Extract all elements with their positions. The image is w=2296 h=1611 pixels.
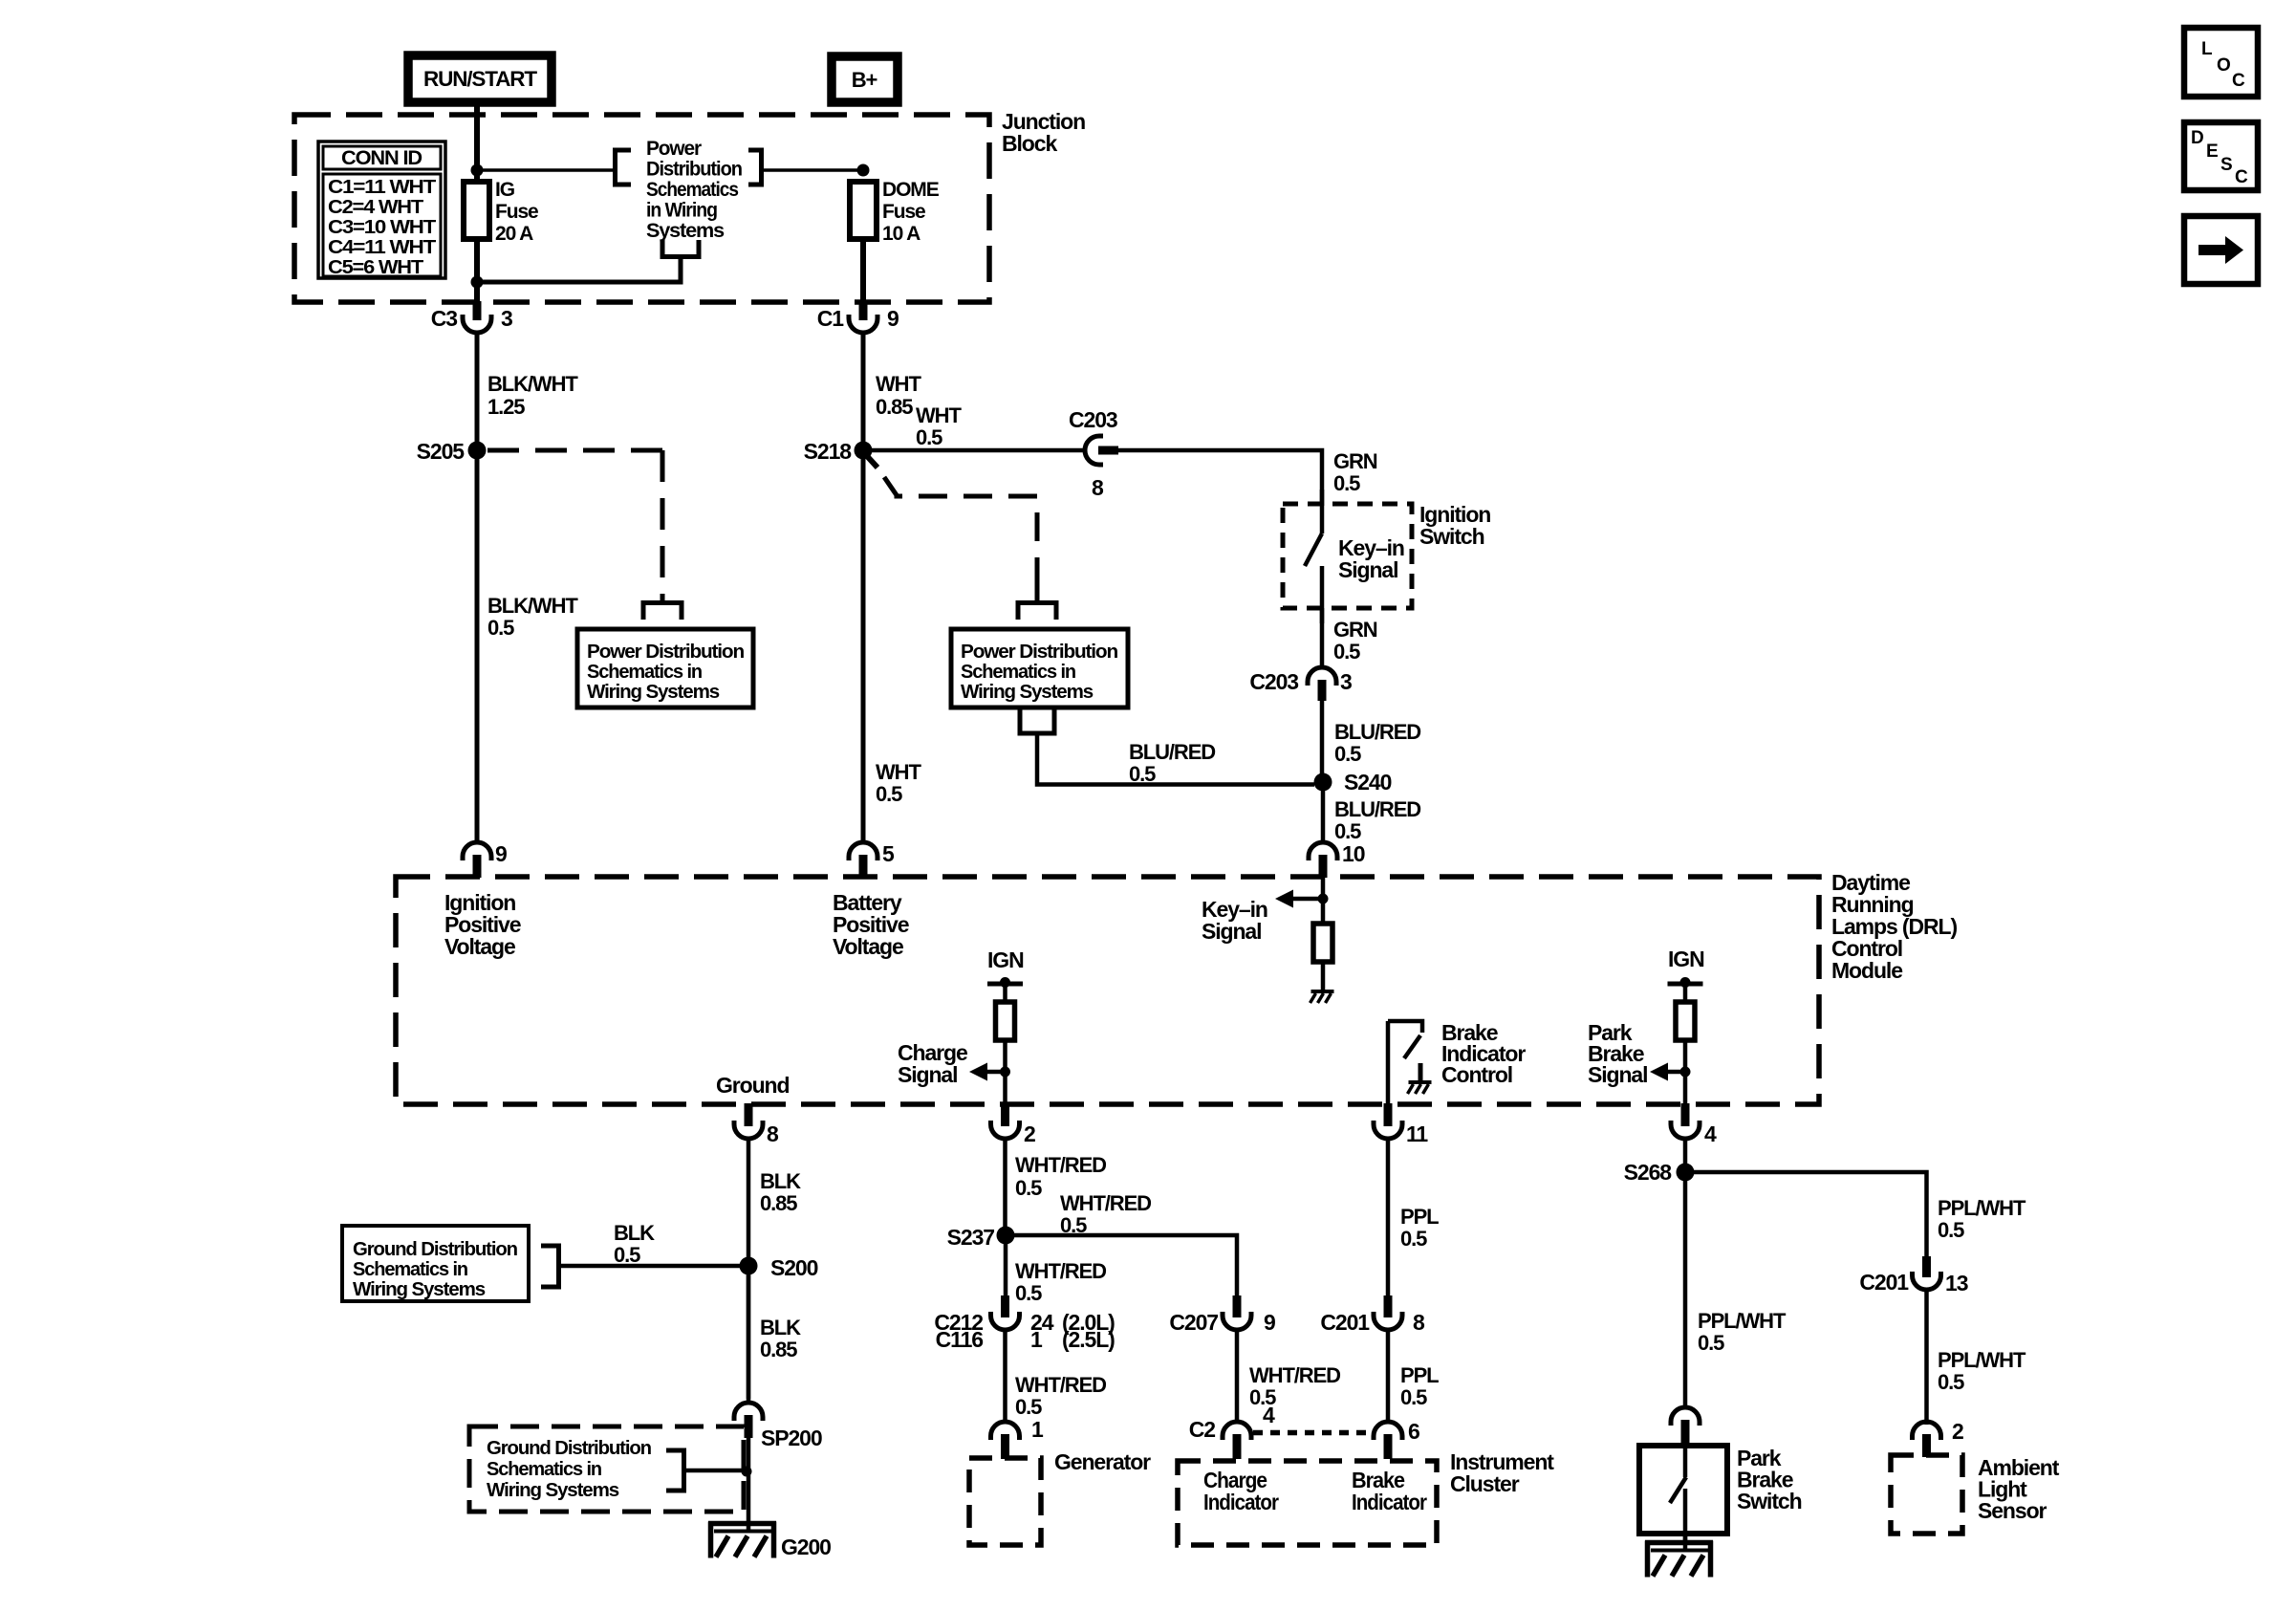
svg-text:BLK/WHT: BLK/WHT <box>487 594 578 618</box>
svg-text:0.5: 0.5 <box>916 425 942 449</box>
svg-text:0.5: 0.5 <box>1938 1370 1964 1394</box>
wire resistor to charge node <box>1003 1040 1007 1104</box>
node junction lower left <box>471 276 484 289</box>
svg-text:BLK: BLK <box>760 1316 801 1339</box>
svg-text:0.5: 0.5 <box>876 782 902 806</box>
connector ID table CONN ID <box>318 142 445 278</box>
node junction at IG fuse top <box>471 164 484 177</box>
svg-text:13: 13 <box>1945 1271 1968 1295</box>
wire reference to G200 lead <box>683 1469 745 1473</box>
svg-text:11: 11 <box>1406 1121 1428 1146</box>
wire S218 to DRL connector 5 WHT 0.5 <box>861 459 866 843</box>
svg-text:S240: S240 <box>1344 770 1392 795</box>
key-in signal arrow <box>1318 894 1329 904</box>
svg-text:S218: S218 <box>804 439 853 464</box>
junction block box <box>294 115 989 302</box>
svg-text:Generator: Generator <box>1054 1449 1151 1474</box>
park brake switch contacts <box>1683 1446 1688 1477</box>
svg-text:L: L <box>2201 39 2213 59</box>
svg-text:5: 5 <box>882 841 895 866</box>
svg-text:C: C <box>2235 167 2248 187</box>
park brake signal arrow <box>1680 1067 1691 1078</box>
splice S240 <box>1314 773 1332 792</box>
svg-text:8: 8 <box>1413 1310 1425 1335</box>
connector C2 charge indicator pin 4 <box>1223 1422 1251 1440</box>
svg-text:(2.5L): (2.5L) <box>1062 1327 1115 1352</box>
svg-text:4: 4 <box>1704 1121 1717 1146</box>
wire S200 to SP200 BLK 0.85 <box>747 1274 751 1404</box>
svg-text:9: 9 <box>887 306 899 331</box>
svg-text:Schematics in: Schematics in <box>353 1259 467 1280</box>
DRL control module box <box>396 877 1819 1104</box>
svg-text:CONN ID: CONN ID <box>341 147 422 169</box>
svg-text:0.85: 0.85 <box>760 1191 797 1215</box>
wire C207 to C2 WHT/RED 0.5 <box>1235 1330 1240 1424</box>
wire RUN/START down to IG fuse <box>474 102 480 182</box>
connector park brake switch <box>1671 1407 1700 1426</box>
svg-text:Voltage: Voltage <box>833 934 903 959</box>
svg-text:C5=6 WHT: C5=6 WHT <box>328 257 423 278</box>
schematic reference bracket (SP200) <box>666 1450 684 1491</box>
svg-text:Schematics in: Schematics in <box>587 662 702 683</box>
svg-text:10: 10 <box>1342 841 1365 866</box>
svg-text:Switch: Switch <box>1737 1489 1802 1513</box>
svg-text:0.5: 0.5 <box>1333 471 1360 495</box>
svg-text:IGN: IGN <box>987 947 1024 972</box>
power feed RUN/START <box>408 55 552 102</box>
svg-text:C3=10 WHT: C3=10 WHT <box>328 217 436 238</box>
svg-text:C4=11 WHT: C4=11 WHT <box>328 237 436 258</box>
wire S237 to C212 WHT/RED 0.5 <box>1004 1244 1008 1297</box>
ground brake indicator (chassis) <box>1419 1063 1423 1081</box>
svg-text:S: S <box>2220 155 2232 175</box>
svg-text:Cluster: Cluster <box>1450 1471 1520 1496</box>
connector C201 pin 8 <box>1384 1295 1393 1317</box>
svg-text:0.5: 0.5 <box>1400 1385 1427 1409</box>
svg-text:0.5: 0.5 <box>1938 1218 1964 1242</box>
node junction at DOME fuse top <box>857 164 870 177</box>
wire C201 to connector 6 PPL 0.5 <box>1386 1330 1391 1424</box>
svg-text:IGN: IGN <box>1668 947 1704 971</box>
ambient light sensor box <box>1891 1455 1962 1534</box>
wire park brake switch to ground <box>1683 1534 1688 1549</box>
svg-text:Wiring Systems: Wiring Systems <box>587 682 720 703</box>
connector 5 into DRL module <box>849 842 877 860</box>
svg-text:WHT: WHT <box>876 372 921 396</box>
svg-text:1: 1 <box>1030 1327 1043 1352</box>
svg-text:Schematics in: Schematics in <box>961 662 1075 683</box>
svg-text:Fuse: Fuse <box>495 201 538 223</box>
wire S240 to DRL connector 10 BLU/RED 0.5 <box>1321 791 1326 843</box>
connector 8 ground out of DRL <box>745 1103 753 1126</box>
wire resistor to park node <box>1683 1040 1688 1104</box>
svg-text:0.5: 0.5 <box>1400 1227 1427 1251</box>
svg-text:0.5: 0.5 <box>1060 1213 1087 1237</box>
schematic reference bracket (right) <box>748 150 762 185</box>
svg-text:C2=4 WHT: C2=4 WHT <box>328 197 423 218</box>
splice S237 <box>997 1227 1015 1245</box>
ground distribution reference box (dashed) <box>469 1426 744 1512</box>
svg-text:0.5: 0.5 <box>1015 1281 1042 1305</box>
svg-text:C201: C201 <box>1859 1270 1909 1295</box>
svg-text:D: D <box>2191 128 2203 148</box>
brake indicator control switch <box>1386 1021 1391 1104</box>
svg-text:S200: S200 <box>770 1255 818 1280</box>
schematic reference under-bracket to S240 <box>1018 708 1057 733</box>
svg-text:C3: C3 <box>431 306 458 331</box>
connector 2 ambient light sensor <box>1913 1422 1941 1440</box>
svg-text:Systems: Systems <box>646 220 724 242</box>
schematic reference under-bracket (junction block) <box>661 240 702 257</box>
svg-text:Wiring Systems: Wiring Systems <box>961 682 1094 703</box>
svg-text:0.5: 0.5 <box>614 1243 640 1267</box>
connector 4 park out of DRL <box>1681 1103 1690 1126</box>
wire C201-13 to ambient sensor PPL/WHT 0.5 <box>1924 1290 1929 1425</box>
connector SP200 splice pack <box>734 1403 763 1421</box>
wire lower reference return <box>477 258 681 282</box>
svg-text:0.85: 0.85 <box>876 395 913 419</box>
svg-text:IG: IG <box>495 179 515 201</box>
svg-text:C203: C203 <box>1069 407 1117 432</box>
svg-text:Control: Control <box>1441 1062 1512 1087</box>
svg-text:Module: Module <box>1831 958 1902 983</box>
connector 9 into DRL module <box>463 842 491 860</box>
connector 10 into DRL module <box>1309 842 1337 860</box>
svg-text:Schematics: Schematics <box>646 179 738 201</box>
connector 6 brake indicator <box>1374 1422 1402 1440</box>
svg-text:BLU/RED: BLU/RED <box>1129 740 1215 764</box>
svg-text:S268: S268 <box>1624 1160 1673 1185</box>
svg-text:3: 3 <box>1340 669 1352 694</box>
svg-text:PPL/WHT: PPL/WHT <box>1938 1348 2026 1372</box>
power distribution schematics box (left) <box>577 629 753 708</box>
svg-text:Schematics in: Schematics in <box>487 1459 601 1480</box>
wire SP200 to G200 <box>747 1438 751 1530</box>
key-in switch contacts <box>1320 490 1325 533</box>
wire ignition switch to C203-3 GRN 0.5 <box>1320 608 1325 669</box>
splice S218 <box>855 442 873 460</box>
connector C201 pin 13 <box>1922 1256 1931 1277</box>
ground distribution schematics box <box>342 1226 529 1301</box>
svg-text:Signal: Signal <box>1338 557 1397 582</box>
svg-text:GRN: GRN <box>1333 449 1377 473</box>
wire C203 to ignition switch GRN 0.5 <box>1118 450 1322 506</box>
svg-text:GRN: GRN <box>1333 618 1377 642</box>
connector C207 pin 9 <box>1233 1295 1242 1317</box>
svg-text:BLU/RED: BLU/RED <box>1334 720 1420 744</box>
splice S200 <box>740 1257 758 1275</box>
svg-text:Power Distribution: Power Distribution <box>961 642 1117 663</box>
splice S268 <box>1677 1164 1695 1182</box>
wire connector 10 to key-in node <box>1321 878 1326 924</box>
svg-text:BLK/WHT: BLK/WHT <box>487 372 578 396</box>
svg-text:Power: Power <box>646 138 702 160</box>
wire IG fuse to connector C3 <box>474 239 480 303</box>
svg-text:Signal: Signal <box>1202 919 1261 944</box>
ignition switch box <box>1283 504 1412 608</box>
svg-text:O: O <box>2217 55 2230 76</box>
svg-text:Power Distribution: Power Distribution <box>587 642 744 663</box>
schematic reference bracket over box (left) <box>643 603 682 620</box>
svg-text:Signal: Signal <box>1588 1062 1647 1087</box>
wire reference to splice S240 BLU/RED 0.5 <box>1037 733 1314 785</box>
svg-text:Fuse: Fuse <box>882 201 925 223</box>
wire DOME fuse to connector C1 <box>860 239 866 303</box>
svg-text:3: 3 <box>501 306 512 331</box>
wire C3 to splice S205 BLK/WHT 1.25 <box>475 332 480 443</box>
svg-text:B+: B+ <box>852 68 877 92</box>
svg-text:1.25: 1.25 <box>487 395 525 419</box>
connector C203 pin 3 <box>1308 667 1336 686</box>
wire connector 2 to splice S237 WHT/RED 0.5 <box>1003 1139 1007 1227</box>
wire S205 to DRL connector 9 BLK/WHT 0.5 <box>475 459 480 843</box>
svg-text:C203: C203 <box>1249 669 1298 694</box>
dotted wire charge to brake indicator <box>1253 1430 1373 1436</box>
svg-text:Indicator: Indicator <box>1203 1490 1279 1514</box>
node junction on G200 lead <box>742 1467 752 1477</box>
svg-text:1: 1 <box>1031 1417 1044 1442</box>
svg-text:C1=11 WHT: C1=11 WHT <box>328 177 436 198</box>
svg-text:DOME: DOME <box>882 179 940 201</box>
wire C203-3 to splice S240 BLU/RED 0.5 <box>1320 699 1325 774</box>
connector C203 pin 8 <box>1085 436 1103 465</box>
svg-text:2: 2 <box>1024 1121 1035 1146</box>
connector C1 pin 9 <box>859 301 868 320</box>
splice S205 <box>468 442 487 460</box>
connector 2 charge out of DRL <box>1001 1103 1009 1126</box>
svg-text:C201: C201 <box>1320 1310 1370 1335</box>
svg-text:0.85: 0.85 <box>760 1338 797 1361</box>
wire S218 to C203 WHT 0.5 <box>872 448 1086 453</box>
wire connector 8 to splice S200 BLK 0.85 <box>747 1139 751 1399</box>
svg-text:6: 6 <box>1408 1419 1419 1444</box>
svg-text:9: 9 <box>1264 1310 1275 1335</box>
svg-text:0.5: 0.5 <box>1698 1331 1724 1355</box>
resistor charge pull-up <box>996 1002 1015 1040</box>
wire reference to B+ branch <box>761 168 863 172</box>
connector 11 brake out of DRL <box>1384 1103 1393 1126</box>
svg-text:E: E <box>2206 142 2218 162</box>
wire to power-distribution reference (left) <box>477 168 613 172</box>
park brake switch box <box>1639 1446 1727 1534</box>
svg-text:C2: C2 <box>1189 1417 1216 1442</box>
schematic reference bracket over box (right) <box>1018 603 1056 620</box>
svg-text:in Wiring: in Wiring <box>646 200 717 222</box>
svg-text:WHT/RED: WHT/RED <box>1015 1153 1106 1177</box>
svg-text:C207: C207 <box>1169 1310 1218 1335</box>
ground key-in (chassis) <box>1311 990 1334 993</box>
svg-text:PPL/WHT: PPL/WHT <box>1698 1309 1787 1333</box>
wire C1 to splice S218 WHT 0.85 <box>861 332 866 443</box>
svg-text:PPL/WHT: PPL/WHT <box>1938 1196 2026 1220</box>
svg-text:WHT: WHT <box>916 403 962 427</box>
svg-text:0.5: 0.5 <box>1129 762 1156 786</box>
svg-text:Sensor: Sensor <box>1978 1498 2047 1523</box>
icon LOC box <box>2184 28 2258 97</box>
wire resistor to ground <box>1321 962 1326 991</box>
icon DESC box <box>2184 122 2258 190</box>
connector C212 / C116 pin 24 / 1 <box>1001 1295 1009 1317</box>
wire S237 branch to C207 WHT/RED 0.5 <box>1014 1235 1237 1296</box>
svg-text:C: C <box>2232 71 2245 91</box>
svg-text:BLU/RED: BLU/RED <box>1334 797 1420 821</box>
svg-text:S237: S237 <box>947 1225 995 1250</box>
svg-text:Ground Distribution: Ground Distribution <box>487 1438 651 1459</box>
dashed branch from S218 <box>867 456 877 468</box>
svg-text:9: 9 <box>495 841 507 866</box>
svg-text:0.5: 0.5 <box>1015 1395 1042 1419</box>
svg-text:Distribution: Distribution <box>646 159 742 181</box>
svg-text:Ground Distribution: Ground Distribution <box>353 1239 517 1260</box>
wire S268 to C201-13 PPL/WHT 0.5 <box>1694 1172 1927 1257</box>
svg-text:Block: Block <box>1002 131 1057 156</box>
dashed wire S205 to reference <box>487 448 662 453</box>
power feed B+ <box>832 56 898 102</box>
wire S268 to park brake switch PPL/WHT 0.5 <box>1683 1181 1688 1407</box>
svg-text:0.5: 0.5 <box>1333 640 1360 664</box>
svg-text:Voltage: Voltage <box>444 934 515 959</box>
svg-text:Signal: Signal <box>898 1062 957 1087</box>
svg-text:0.5: 0.5 <box>487 616 514 640</box>
wire connector 4 to splice S268 <box>1683 1139 1688 1165</box>
generator box <box>969 1458 1041 1545</box>
ground park brake switch <box>1645 1540 1713 1546</box>
svg-text:8: 8 <box>1092 475 1104 500</box>
svg-text:C1: C1 <box>817 306 845 331</box>
ground G200 <box>708 1521 776 1527</box>
resistor park brake pull-up <box>1676 1002 1695 1040</box>
svg-text:C116: C116 <box>936 1327 984 1352</box>
wire connector 11 to C201 PPL 0.5 <box>1386 1139 1391 1297</box>
wire C212 to generator WHT/RED 0.5 <box>1003 1330 1007 1424</box>
svg-text:WHT: WHT <box>876 760 921 784</box>
svg-text:Wiring Systems: Wiring Systems <box>353 1279 486 1300</box>
svg-text:Indicator: Indicator <box>1352 1490 1427 1514</box>
svg-text:0.5: 0.5 <box>1334 819 1361 843</box>
fuse IG 20 A <box>464 182 489 239</box>
svg-text:WHT/RED: WHT/RED <box>1060 1191 1151 1215</box>
svg-text:20 A: 20 A <box>495 223 533 245</box>
fuse DOME 10 A <box>850 182 877 239</box>
svg-text:Wiring Systems: Wiring Systems <box>487 1480 619 1501</box>
wire reference to S200 BLK 0.5 <box>558 1264 741 1269</box>
svg-text:8: 8 <box>767 1121 779 1146</box>
charge signal arrow <box>1000 1067 1010 1078</box>
svg-text:0.5: 0.5 <box>1334 742 1361 766</box>
svg-text:SP200: SP200 <box>761 1426 822 1450</box>
svg-text:Ground: Ground <box>716 1073 789 1098</box>
connector 1 generator <box>991 1422 1020 1440</box>
resistor key-in pull-up <box>1313 924 1332 962</box>
connector C3 pin 3 <box>473 301 482 320</box>
svg-text:0.5: 0.5 <box>1015 1176 1042 1200</box>
svg-text:S205: S205 <box>417 439 466 464</box>
svg-text:BLK: BLK <box>614 1221 655 1245</box>
svg-text:Switch: Switch <box>1419 524 1484 549</box>
instrument cluster box <box>1178 1461 1437 1545</box>
svg-text:PPL: PPL <box>1400 1363 1439 1387</box>
schematic reference bracket (ground) <box>541 1246 559 1287</box>
svg-text:RUN/START: RUN/START <box>423 67 538 91</box>
svg-text:G200: G200 <box>781 1535 831 1559</box>
svg-text:BLK: BLK <box>760 1169 801 1193</box>
svg-text:WHT/RED: WHT/RED <box>1249 1363 1340 1387</box>
svg-text:WHT/RED: WHT/RED <box>1015 1259 1106 1283</box>
svg-text:10 A: 10 A <box>882 223 921 245</box>
power distribution schematics box (right) <box>951 629 1128 708</box>
svg-text:PPL: PPL <box>1400 1205 1439 1229</box>
svg-text:WHT/RED: WHT/RED <box>1015 1373 1106 1397</box>
svg-text:2: 2 <box>1952 1419 1963 1444</box>
icon next-page arrow box <box>2184 216 2258 284</box>
schematic reference bracket (left) <box>616 150 632 185</box>
svg-text:4: 4 <box>1263 1403 1275 1427</box>
